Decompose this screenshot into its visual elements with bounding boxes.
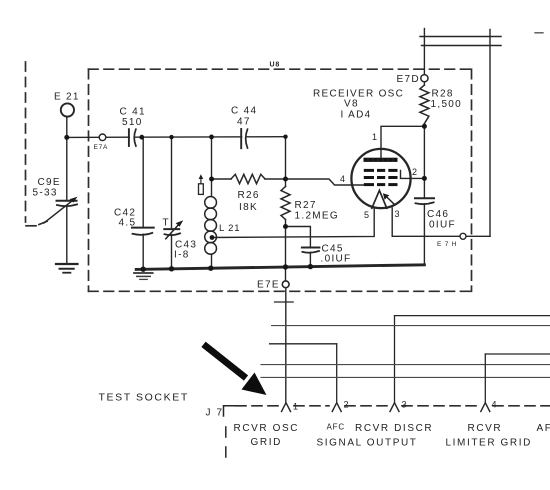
svg-text:1: 1 — [293, 402, 299, 412]
svg-text:2: 2 — [412, 167, 418, 177]
svg-text:C46: C46 — [427, 209, 449, 220]
svg-text:1: 1 — [372, 132, 378, 142]
svg-text:2: 2 — [344, 400, 350, 410]
svg-text:5-33: 5-33 — [33, 188, 58, 199]
svg-text:C 41: C 41 — [120, 107, 146, 118]
svg-text:AF: AF — [537, 423, 550, 434]
svg-text:3: 3 — [395, 209, 401, 219]
svg-text:E7A: E7A — [94, 144, 109, 151]
svg-text:R27: R27 — [295, 200, 317, 211]
svg-text:I-8: I-8 — [174, 250, 190, 261]
svg-text:R26: R26 — [238, 190, 260, 201]
svg-text:TEST SOCKET: TEST SOCKET — [99, 392, 189, 404]
svg-text:4: 4 — [492, 400, 498, 410]
svg-text:RCVR DISCR: RCVR DISCR — [355, 423, 433, 434]
svg-text:1.2MEG: 1.2MEG — [295, 211, 339, 222]
svg-text:AFC: AFC — [327, 423, 345, 432]
svg-text:510: 510 — [122, 117, 143, 128]
svg-text:I8K: I8K — [239, 202, 258, 213]
svg-text:T: T — [163, 218, 170, 229]
svg-text:R28: R28 — [432, 89, 454, 100]
svg-text:U8: U8 — [270, 62, 281, 69]
svg-text:4: 4 — [340, 174, 346, 184]
svg-text:J 7: J 7 — [206, 408, 224, 419]
svg-text:47: 47 — [237, 117, 251, 128]
svg-text:3: 3 — [402, 400, 408, 410]
svg-text:V8: V8 — [344, 99, 359, 110]
svg-text:L 21: L 21 — [219, 223, 240, 234]
svg-text:LIMITER GRID: LIMITER GRID — [446, 438, 532, 449]
svg-text:SIGNAL OUTPUT: SIGNAL OUTPUT — [317, 438, 418, 449]
svg-text:E7D: E7D — [397, 74, 420, 85]
svg-text:5: 5 — [364, 210, 370, 220]
svg-text:I AD4: I AD4 — [341, 110, 372, 121]
svg-text:E7E: E7E — [257, 280, 280, 291]
svg-text:.0IUF: .0IUF — [321, 254, 352, 265]
svg-text:E 21: E 21 — [54, 92, 80, 103]
svg-text:C 44: C 44 — [231, 106, 257, 117]
svg-text:E 7 H: E 7 H — [437, 241, 457, 248]
svg-text:0IUF: 0IUF — [429, 220, 456, 231]
svg-text:RCVR OSC: RCVR OSC — [234, 423, 300, 434]
svg-text:4.5: 4.5 — [119, 218, 137, 229]
svg-text:RCVR: RCVR — [468, 423, 503, 434]
svg-text:1,500: 1,500 — [431, 99, 463, 110]
svg-text:GRID: GRID — [251, 437, 282, 448]
svg-text:C9E: C9E — [38, 177, 61, 188]
